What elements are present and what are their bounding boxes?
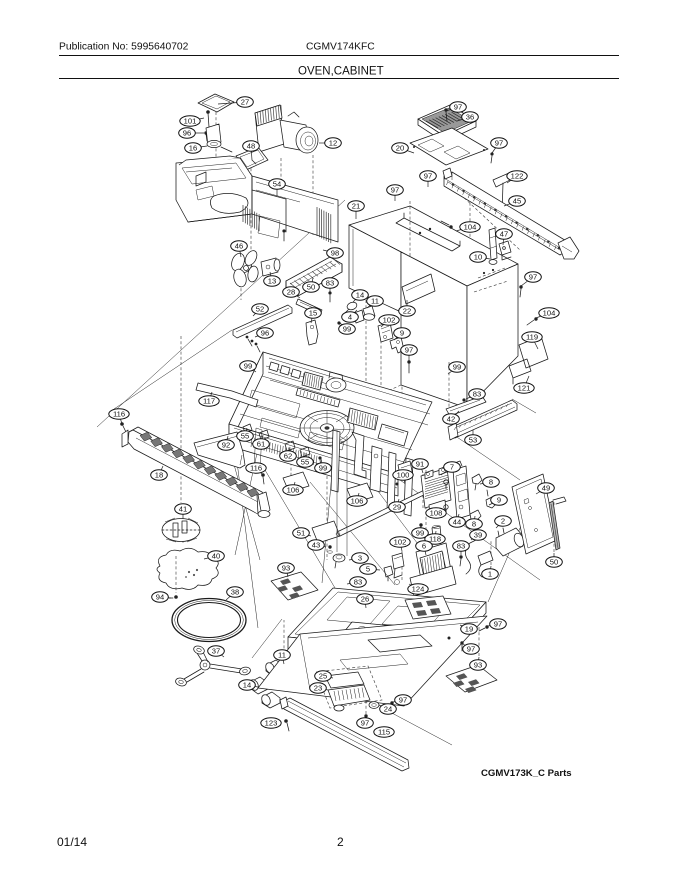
- balloon 47 leader: [503, 234, 504, 245]
- balloon 119 leader: [532, 337, 538, 349]
- balloon 97 leader: [394, 190, 396, 201]
- interlock 102 bottom: [392, 553, 404, 585]
- screw 97 duct: [282, 229, 285, 241]
- balloon 54: [269, 179, 286, 189]
- balloon 42: [443, 414, 460, 424]
- svg-text:50: 50: [550, 558, 558, 567]
- svg-text:93: 93: [474, 661, 482, 670]
- svg-text:99: 99: [319, 464, 327, 473]
- svg-text:106: 106: [287, 486, 300, 495]
- svg-text:99: 99: [416, 529, 424, 538]
- svg-text:96: 96: [183, 129, 191, 138]
- balloon 4: [342, 312, 359, 322]
- balloon 97: [491, 138, 508, 148]
- balloon 116: [246, 463, 266, 473]
- svg-text:22: 22: [403, 307, 411, 316]
- plate 117: [196, 383, 258, 407]
- balloon 116: [109, 409, 129, 419]
- fan motor 13: [261, 258, 280, 276]
- svg-text:102: 102: [394, 538, 407, 547]
- chassis long struts: [337, 430, 347, 556]
- balloon 21: [348, 201, 365, 211]
- balloon 96 leader: [255, 333, 265, 337]
- svg-text:118: 118: [429, 535, 441, 544]
- svg-text:27: 27: [241, 98, 249, 107]
- svg-text:83: 83: [326, 279, 334, 288]
- svg-text:122: 122: [511, 172, 524, 181]
- svg-text:40: 40: [212, 552, 220, 561]
- balloon 55: [237, 431, 254, 441]
- svg-text:83: 83: [457, 542, 465, 551]
- svg-text:99: 99: [343, 325, 351, 334]
- chassis wall lines: [268, 372, 332, 397]
- balloon 106 leader: [293, 482, 295, 490]
- balloon 97: [401, 345, 418, 355]
- balloon 97: [525, 272, 542, 282]
- balloon 115 leader: [374, 732, 384, 734]
- svg-text:21: 21: [352, 202, 360, 211]
- svg-text:14: 14: [243, 681, 251, 690]
- balloon 123 leader: [271, 723, 281, 725]
- svg-text:9: 9: [497, 496, 501, 505]
- svg-text:102: 102: [383, 316, 396, 325]
- balloon 39 leader: [471, 535, 478, 540]
- balloon 23 leader: [318, 688, 328, 690]
- bracket 15: [306, 320, 318, 345]
- svg-text:37: 37: [212, 647, 220, 656]
- balloon 83 leader: [460, 546, 462, 555]
- plate 51: [312, 521, 340, 543]
- balloon 94 leader: [160, 597, 171, 598]
- strip 122: [493, 173, 512, 216]
- balloon 49: [538, 483, 555, 493]
- screw 83 cap: [459, 555, 462, 566]
- balloon 18: [151, 470, 168, 480]
- balloon 3 leader: [349, 558, 360, 560]
- svg-text:97: 97: [454, 103, 462, 112]
- balloon 50 leader: [553, 553, 555, 562]
- screw 83 rail: [462, 398, 472, 404]
- balloon 2: [495, 516, 512, 526]
- balloon 46: [231, 241, 248, 251]
- plate 22: [402, 274, 435, 304]
- balloon 53: [465, 435, 482, 445]
- balloon 100 leader: [403, 475, 405, 484]
- svg-text:4: 4: [348, 313, 352, 322]
- balloon 40 leader: [204, 556, 216, 559]
- svg-text:116: 116: [250, 464, 262, 473]
- balloon 106: [283, 485, 303, 495]
- roller support 37: [175, 645, 251, 688]
- balloon 118: [425, 534, 445, 544]
- latch bracket under chassis: [254, 428, 413, 516]
- balloon 123: [261, 718, 281, 728]
- svg-text:Publication No: 5995640702: Publication No: 5995640702: [59, 42, 189, 53]
- chassis vent hatch: [302, 372, 323, 390]
- balloon 44 leader: [457, 514, 459, 522]
- balloon 15: [305, 308, 322, 318]
- hook 8b: [470, 510, 481, 521]
- svg-text:93: 93: [282, 564, 290, 573]
- balloon 11 leader: [282, 655, 284, 664]
- balloon 124: [408, 584, 428, 594]
- balloon 94: [152, 592, 169, 602]
- balloon 1: [482, 569, 499, 579]
- screw 116 left: [120, 422, 126, 432]
- bracket 47: [499, 241, 511, 260]
- svg-text:15: 15: [309, 309, 317, 318]
- balloon 97 leader: [365, 715, 366, 723]
- balloon 23: [310, 683, 327, 693]
- svg-text:119: 119: [526, 333, 538, 342]
- clamp 24: [369, 702, 379, 709]
- balloon 97 leader: [446, 107, 458, 111]
- balloon 61: [253, 439, 270, 449]
- balloon 51 leader: [301, 533, 311, 536]
- balloon 4 leader: [350, 310, 357, 317]
- screw 116 mid: [261, 473, 265, 484]
- svg-text:62: 62: [284, 452, 292, 461]
- svg-text:97: 97: [494, 620, 502, 629]
- waveguide cover 23 25: [316, 666, 382, 711]
- balloon 7: [444, 462, 461, 472]
- svg-text:97: 97: [391, 186, 399, 195]
- svg-text:97: 97: [495, 139, 503, 148]
- balloon 50: [303, 282, 320, 292]
- balloon 29: [389, 502, 406, 512]
- roller 14 bottom: [248, 677, 280, 708]
- balloon 97 leader: [492, 143, 499, 153]
- hook 8a: [472, 474, 482, 490]
- balloon 8: [483, 477, 500, 487]
- balloon 14: [352, 290, 369, 300]
- screw 43: [328, 545, 333, 553]
- balloon 106: [347, 496, 367, 506]
- balloon 36: [462, 112, 479, 122]
- balloon 91: [412, 459, 429, 469]
- balloon 13: [264, 276, 281, 286]
- balloon 97: [463, 644, 480, 654]
- balloon 116 leader: [119, 414, 122, 424]
- capacitor 2: [496, 528, 526, 556]
- screw 97 plate36: [444, 108, 447, 121]
- balloon 102: [379, 315, 399, 325]
- svg-text:124: 124: [412, 585, 425, 594]
- balloon 99: [315, 463, 332, 473]
- svg-text:38: 38: [231, 588, 239, 597]
- svg-text:98: 98: [331, 249, 339, 258]
- balloon 6 leader: [424, 546, 426, 555]
- balloon 97: [387, 185, 404, 195]
- diode 1 wires 39: [465, 539, 493, 577]
- svg-text:5: 5: [366, 565, 370, 574]
- balloon 102 leader: [400, 542, 402, 551]
- balloon 14 leader: [247, 685, 258, 687]
- door bar 115: [280, 697, 409, 771]
- stirrer cover 41: [162, 518, 200, 542]
- svg-text:52: 52: [256, 305, 264, 314]
- plate 106a: [283, 472, 309, 492]
- balloon 14 leader: [353, 295, 360, 302]
- balloon 61 leader: [261, 435, 263, 444]
- balloon 101 leader: [190, 118, 204, 121]
- balloon 97 leader: [521, 277, 533, 286]
- svg-text:2: 2: [337, 835, 344, 849]
- grease blob 40: [157, 548, 218, 593]
- svg-text:104: 104: [543, 309, 556, 318]
- balloon 55 leader: [245, 428, 247, 436]
- balloon 50 leader: [311, 278, 313, 287]
- balloon 13 leader: [270, 272, 272, 281]
- chassis slots: [269, 362, 301, 379]
- svg-text:55: 55: [241, 432, 249, 441]
- svg-text:97: 97: [361, 719, 369, 728]
- balloon 18 leader: [159, 466, 163, 475]
- plate 27: [198, 94, 234, 112]
- plate 36: [418, 105, 476, 142]
- balloon 99 leader: [420, 525, 421, 533]
- cabinet wrap 21: [349, 206, 518, 312]
- hatch plate 124: [405, 596, 451, 619]
- balloon 27 leader: [218, 102, 245, 104]
- balloon 3: [352, 553, 369, 563]
- clip 55a: [243, 424, 252, 437]
- balloon 119: [522, 332, 542, 342]
- lower tray 19: [258, 616, 487, 706]
- svg-text:20: 20: [396, 144, 404, 153]
- magnetron 7: [421, 466, 451, 516]
- balloon 25: [315, 671, 332, 681]
- blower motor 12: [255, 105, 318, 153]
- balloon 53 leader: [472, 430, 474, 440]
- balloon 48: [243, 141, 260, 151]
- balloon 104 leader: [456, 227, 470, 231]
- svg-text:44: 44: [453, 518, 461, 527]
- balloon 19 leader: [460, 625, 469, 629]
- chassis slot rail: [296, 388, 340, 407]
- svg-text:1: 1: [488, 570, 492, 579]
- header rule 1: [59, 55, 619, 57]
- svg-text:2: 2: [501, 517, 505, 526]
- svg-text:53: 53: [469, 436, 477, 445]
- balloon 9 leader: [489, 500, 499, 505]
- balloon 12 leader: [319, 142, 333, 144]
- balloon 104: [460, 222, 480, 232]
- balloon 7 leader: [441, 467, 452, 475]
- screw 97 wg: [364, 714, 367, 724]
- screw 104 top: [441, 221, 453, 229]
- balloon 99 leader: [340, 323, 347, 329]
- svg-text:46: 46: [235, 242, 243, 251]
- screw 94: [169, 595, 178, 599]
- svg-text:55: 55: [301, 458, 309, 467]
- svg-text:108: 108: [430, 509, 443, 518]
- balloon 99 leader: [448, 367, 457, 374]
- svg-text:01/14: 01/14: [57, 835, 87, 849]
- svg-text:14: 14: [356, 291, 364, 300]
- bracket 20: [410, 128, 488, 165]
- svg-text:26: 26: [361, 595, 369, 604]
- screw 97 right20: [490, 152, 493, 163]
- clip 61: [259, 430, 269, 444]
- balloon 93 leader: [478, 657, 479, 665]
- svg-text:104: 104: [464, 223, 477, 232]
- transformer 6: [410, 543, 456, 596]
- svg-text:16: 16: [189, 144, 197, 153]
- dashed assembly lines: [181, 112, 554, 714]
- balloon 8: [466, 519, 483, 529]
- balloon 10: [470, 252, 487, 262]
- balloon 122 leader: [507, 176, 517, 183]
- svg-text:8: 8: [472, 520, 476, 529]
- balloon 99 leader: [321, 459, 323, 468]
- svg-text:11: 11: [371, 297, 379, 306]
- balloon 115: [374, 727, 394, 737]
- balloon 9: [394, 328, 411, 338]
- duct 50: [286, 257, 342, 296]
- bracket 16: [206, 124, 232, 152]
- balloon 9: [491, 495, 508, 505]
- balloon 121 leader: [524, 376, 529, 388]
- balloon 16 leader: [193, 146, 207, 148]
- balloon 5: [360, 564, 377, 574]
- balloon 37: [208, 646, 225, 656]
- cavity 10: [390, 200, 518, 420]
- svg-text:47: 47: [500, 230, 508, 239]
- svg-text:6: 6: [422, 542, 426, 551]
- svg-text:3: 3: [358, 554, 362, 563]
- svg-text:23: 23: [314, 684, 322, 693]
- balloon 24 leader: [379, 705, 388, 709]
- svg-text:48: 48: [247, 142, 255, 151]
- svg-text:116: 116: [113, 410, 125, 419]
- balloon 50: [546, 557, 563, 567]
- roller 14 top: [345, 301, 358, 313]
- chassis vent right: [347, 408, 378, 430]
- balloon 20: [392, 143, 409, 153]
- balloon 5 leader: [368, 569, 380, 570]
- balloon 83 leader: [466, 394, 477, 399]
- balloon 10 leader: [478, 257, 490, 259]
- balloon 29 leader: [397, 499, 399, 507]
- screw 97 tray right: [479, 625, 489, 631]
- hatch plate 93a: [271, 572, 318, 600]
- alignment lines: [97, 200, 540, 745]
- svg-text:29: 29: [393, 503, 401, 512]
- balloon 1 leader: [490, 566, 491, 574]
- screw 104 right: [527, 317, 538, 325]
- roller 11 bottom: [264, 660, 302, 681]
- svg-text:106: 106: [351, 497, 364, 506]
- chassis circle: [300, 411, 354, 446]
- balloon 54 leader: [276, 184, 278, 196]
- balloon 104 leader: [536, 313, 549, 318]
- balloon 93: [470, 660, 487, 670]
- turntable ring 38: [172, 599, 246, 642]
- balloon 122: [507, 171, 527, 181]
- screws 108: [444, 480, 448, 514]
- balloon 41: [175, 504, 192, 514]
- balloon 96 leader: [187, 132, 204, 134]
- brace 28: [296, 299, 322, 315]
- svg-text:CGMV174KFC: CGMV174KFC: [306, 42, 375, 53]
- balloon 8 leader: [474, 516, 475, 524]
- balloon 101: [180, 116, 200, 126]
- balloon 97: [450, 102, 467, 112]
- balloon 9 leader: [394, 333, 402, 340]
- svg-text:61: 61: [257, 440, 265, 449]
- svg-text:18: 18: [155, 471, 163, 480]
- balloon 99: [449, 362, 466, 372]
- lever 9 right: [486, 490, 497, 508]
- screws 97 tray mid: [448, 637, 464, 652]
- svg-text:28: 28: [287, 288, 295, 297]
- plate 48: [236, 147, 268, 170]
- balloon 62 leader: [288, 447, 290, 456]
- svg-text:115: 115: [378, 728, 390, 737]
- balloon 108: [426, 508, 446, 518]
- screw 83 top: [328, 291, 331, 302]
- screw 99 left: [255, 371, 260, 381]
- balloon 98 leader: [323, 250, 335, 253]
- balloon 39: [470, 530, 487, 540]
- balloon 43 leader: [316, 545, 326, 547]
- grommet 3: [333, 554, 345, 568]
- svg-text:12: 12: [329, 139, 337, 148]
- svg-text:51: 51: [297, 529, 305, 538]
- balloon 97: [490, 619, 507, 629]
- chassis right pocket: [378, 424, 408, 446]
- rail 53: [448, 400, 517, 440]
- balloon 99 leader: [248, 366, 256, 372]
- balloon 41 leader: [182, 509, 184, 519]
- balloon 83: [322, 278, 339, 288]
- svg-text:49: 49: [542, 484, 550, 493]
- balloon 100: [393, 470, 413, 480]
- balloon 83: [453, 541, 470, 551]
- plate 106b: [347, 483, 373, 503]
- svg-text:117: 117: [203, 397, 215, 406]
- balloon 19: [461, 624, 478, 634]
- screw 123: [284, 719, 289, 731]
- balloon 42 leader: [451, 411, 459, 419]
- clip 55b: [300, 447, 310, 457]
- svg-text:13: 13: [268, 277, 276, 286]
- balloon 97 leader: [463, 644, 471, 649]
- balloon 83: [350, 577, 367, 587]
- balloon 93 leader: [286, 568, 288, 577]
- svg-text:39: 39: [474, 531, 482, 540]
- balloon 36 leader: [457, 117, 470, 121]
- balloon 21 leader: [355, 206, 357, 219]
- svg-text:OVEN,CABINET: OVEN,CABINET: [298, 66, 384, 78]
- balloon 28 leader: [291, 292, 300, 298]
- balloon 106 leader: [357, 493, 359, 501]
- balloon 99: [240, 361, 257, 371]
- screw 97 right cab: [519, 285, 522, 297]
- screw 99 row: [337, 321, 342, 330]
- balloon 11: [274, 650, 291, 660]
- balloon 38: [227, 587, 244, 597]
- svg-text:123: 123: [265, 719, 278, 728]
- balloon 8 leader: [480, 482, 491, 484]
- screw 96 rail: [251, 340, 254, 343]
- balloon 97: [420, 171, 437, 181]
- panel 119: [519, 336, 548, 368]
- svg-text:97: 97: [399, 696, 407, 705]
- balloon 117: [199, 396, 219, 406]
- balloon 117 leader: [209, 392, 212, 401]
